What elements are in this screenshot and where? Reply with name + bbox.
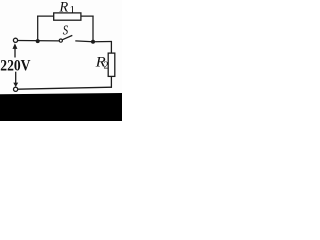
wire: bottom rail (18, 87, 112, 89)
wire: top rail (37, 15, 94, 17)
wire: right branch vertical (top rail to switch rail) (92, 16, 94, 42)
label R1 (58, 0, 75, 16)
arrow: AC source lower lead (points down to terminal) (13, 72, 18, 87)
resistor R1 (54, 13, 81, 20)
label 220V (0, 56, 30, 74)
svg-text:220V: 220V (0, 56, 30, 74)
wire: switch rail left segment (18, 40, 59, 42)
label R2 (95, 54, 109, 71)
junction dot right (91, 40, 95, 44)
junction dot left (36, 39, 40, 43)
svg-text:1: 1 (70, 4, 76, 16)
resistor R2 (108, 53, 115, 76)
svg-text:S: S (63, 22, 68, 37)
arrow: AC source upper lead (points up to terminal) (13, 43, 18, 57)
wire: left branch vertical (top rail to switch rail) (37, 16, 39, 42)
label S (63, 22, 68, 37)
black scan bar at bottom (0, 93, 122, 121)
switch S (pivot circle and blade) (59, 35, 72, 42)
svg-text:R: R (58, 0, 68, 16)
node: left AC terminal (open circle) (13, 38, 17, 42)
wire: switch rail right segment (75, 40, 93, 43)
svg-text:2: 2 (104, 60, 109, 71)
wire: below R2 to bottom rail (110, 76, 112, 88)
wire: to R2 (horizontal then down) (93, 41, 111, 54)
node: bottom-left AC terminal (open circle) (14, 87, 18, 91)
